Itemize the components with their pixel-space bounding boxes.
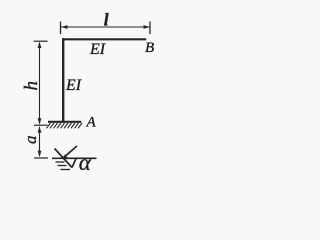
dimension a bottom arrowhead [38, 151, 42, 158]
fixed support base line at A [48, 121, 81, 123]
svg-text:α: α [79, 150, 92, 175]
dimension a bottom tick [34, 157, 48, 159]
beam member top [62, 38, 146, 40]
dimension line a [39, 127, 41, 156]
dimension line l [61, 26, 150, 28]
column member left [62, 38, 64, 121]
dimension a top arrowhead [38, 126, 42, 133]
tilted support line L1 [55, 149, 73, 168]
svg-text:a: a [21, 136, 40, 145]
dimension l right tick [149, 22, 151, 35]
svg-text:A: A [86, 115, 97, 131]
rotation leader arrowhead [62, 155, 68, 159]
rotation leader arrow S2 [64, 146, 77, 157]
dimension l right arrowhead [144, 25, 151, 29]
svg-text:l: l [104, 10, 109, 30]
svg-text:B: B [145, 40, 154, 56]
dimension l left arrowhead [61, 25, 68, 29]
earth hatch 2 [58, 165, 67, 167]
svg-text:h: h [21, 81, 42, 91]
earth hatch 1 [56, 161, 65, 163]
dimension l left tick [60, 22, 62, 35]
dimension line h [39, 43, 41, 123]
dimension h bottom arrowhead [38, 118, 42, 125]
angle wedge stroke S4 [72, 158, 77, 168]
dimension h top arrowhead [38, 42, 42, 49]
earth hatch 3 [61, 169, 71, 171]
rotated ground reference line (alpha symbol horizontal) [52, 157, 97, 159]
fixed support hatching [47, 123, 83, 128]
svg-text:EI: EI [89, 41, 106, 58]
dimension h/a shared middle tick [34, 124, 48, 126]
dimension h top tick [34, 40, 48, 42]
svg-text:EI: EI [65, 77, 82, 94]
